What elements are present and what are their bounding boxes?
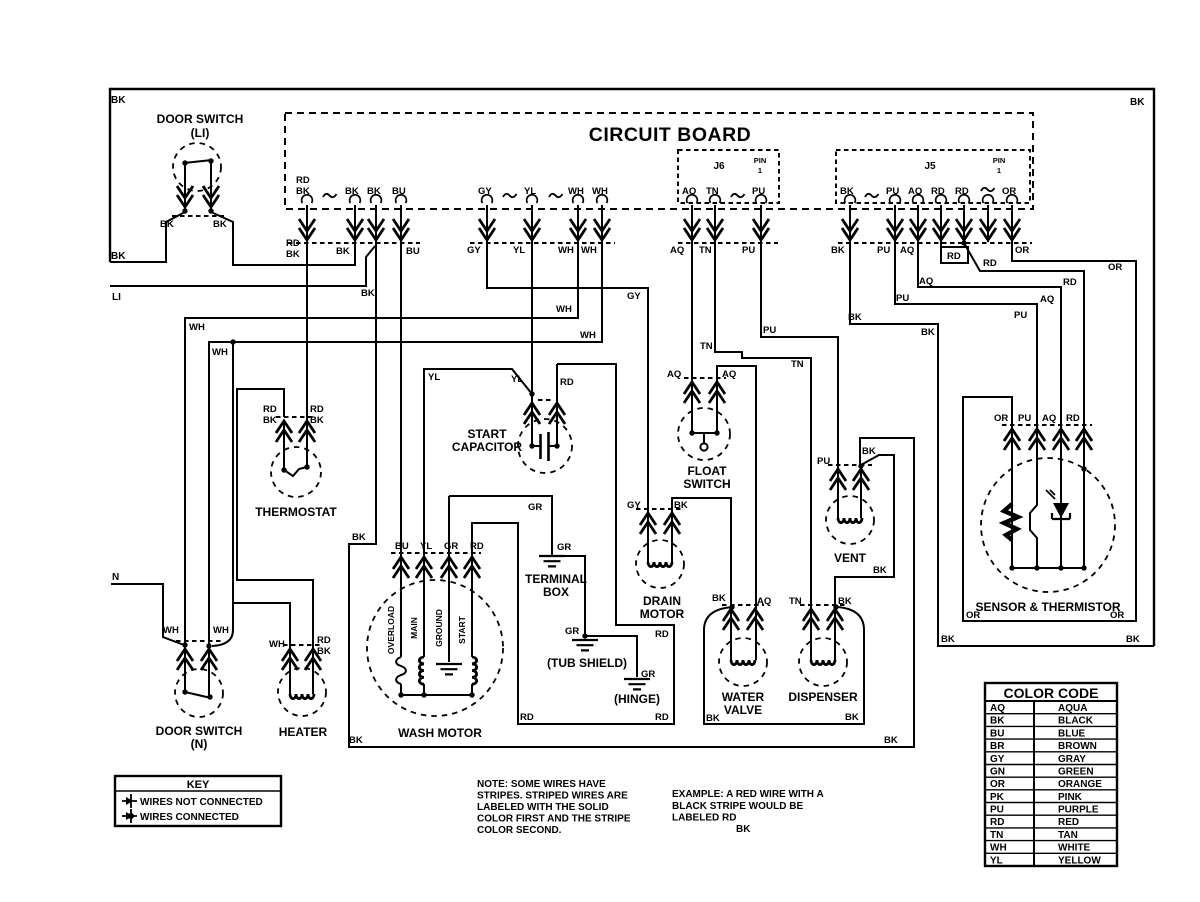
circuit board dashed outline — [285, 113, 1033, 209]
svg-text:AQ: AQ — [682, 186, 696, 197]
GR wire wash motor to terminal box ground — [449, 496, 552, 662]
svg-text:LABELED RD: LABELED RD — [672, 813, 736, 824]
svg-text:PU: PU — [990, 805, 1004, 816]
svg-text:TN: TN — [990, 830, 1003, 841]
svg-text:KEY: KEY — [187, 779, 210, 791]
svg-text:BK: BK — [736, 824, 751, 835]
sensor and thermistor — [975, 413, 1120, 614]
svg-text:BU: BU — [990, 728, 1004, 739]
svg-text:BK: BK — [674, 500, 688, 511]
svg-text:AQ: AQ — [919, 276, 933, 287]
svg-text:(TUB SHIELD): (TUB SHIELD) — [547, 656, 627, 670]
RD stub wire boxed pin — [940, 205, 942, 247]
svg-text:SWITCH: SWITCH — [683, 477, 730, 491]
svg-text:BK: BK — [310, 415, 324, 426]
wash motor — [367, 541, 503, 740]
OR wire J5 around sensor box — [963, 205, 1136, 621]
svg-text:BK: BK — [160, 219, 174, 230]
svg-text:WH: WH — [592, 186, 608, 197]
svg-text:RD: RD — [470, 541, 484, 552]
svg-text:PU: PU — [817, 456, 830, 467]
svg-text:OVERLOAD: OVERLOAD — [386, 606, 396, 654]
svg-text:GY: GY — [990, 754, 1005, 765]
key box — [115, 776, 281, 826]
wires connected symbol — [122, 809, 137, 823]
svg-text:WASH MOTOR: WASH MOTOR — [398, 726, 482, 740]
svg-text:WH: WH — [163, 625, 179, 636]
svg-text:WH: WH — [212, 347, 228, 358]
svg-text:RED: RED — [1058, 817, 1079, 828]
note text — [477, 779, 631, 836]
svg-text:DRAIN: DRAIN — [643, 594, 681, 608]
svg-text:WH: WH — [568, 186, 584, 197]
unused J5 pin stub wire — [987, 205, 989, 242]
svg-text:GR: GR — [444, 541, 458, 552]
J5 unused pin hook with squiggle — [983, 195, 994, 203]
vent BK junction dot — [858, 463, 863, 468]
svg-text:LABELED WITH THE SOLID: LABELED WITH THE SOLID — [477, 802, 609, 813]
svg-text:YL: YL — [420, 541, 432, 552]
BK enclosure wire around wash motor area to vent — [349, 205, 914, 747]
J6 pin AQ hook — [687, 195, 698, 203]
svg-text:BK: BK — [862, 446, 876, 457]
svg-text:WH: WH — [556, 304, 572, 315]
PU wire J5 to sensor — [895, 205, 1037, 568]
svg-text:BK: BK — [921, 327, 935, 338]
svg-text:AQUA: AQUA — [1058, 703, 1087, 714]
svg-text:WIRES NOT CONNECTED: WIRES NOT CONNECTED — [140, 797, 263, 808]
svg-text:BK: BK — [1126, 634, 1140, 645]
svg-text:GY: GY — [478, 186, 492, 197]
svg-text:RD: RD — [990, 817, 1004, 828]
svg-text:BK: BK — [845, 712, 859, 723]
J6 pin PU hook — [756, 195, 767, 203]
svg-text:BK: BK — [296, 186, 310, 197]
svg-text:SENSOR & THERMISTOR: SENSOR & THERMISTOR — [975, 600, 1120, 614]
svg-text:BK: BK — [873, 565, 887, 576]
thermostat — [255, 404, 337, 519]
boxed RD label — [941, 247, 968, 263]
sensor bottom bar — [1012, 567, 1084, 569]
J5 pin RD hook — [936, 195, 947, 203]
svg-text:OR: OR — [994, 413, 1008, 424]
unused pin squiggle — [865, 194, 879, 197]
harness connector dashed line group C — [678, 242, 778, 244]
BK wire J5 to sensor area and border — [850, 205, 1154, 646]
diode symbol — [1053, 503, 1069, 518]
unused pin squiggle — [731, 194, 745, 197]
J5 pin RD hook — [959, 195, 970, 203]
svg-text:THERMOSTAT: THERMOSTAT — [255, 505, 337, 519]
harness connector dashed line group D — [838, 242, 1032, 244]
wire door switch LI right pin to board BK pin — [211, 205, 355, 265]
BK wire vent to dispenser — [835, 455, 894, 660]
WH wire 2 board to door switch N right pin — [209, 205, 602, 696]
dispenser BK pin dot — [833, 604, 838, 609]
AQ wire float switch to water valve — [717, 366, 756, 660]
svg-text:OR: OR — [1002, 186, 1016, 197]
svg-text:FLOAT: FLOAT — [687, 464, 727, 478]
svg-text:BK: BK — [111, 95, 126, 106]
svg-text:COLOR FIRST AND THE STRIPE: COLOR FIRST AND THE STRIPE — [477, 814, 631, 825]
svg-text:TAN: TAN — [1058, 830, 1078, 841]
board pin GY hook — [482, 195, 493, 203]
svg-text:PINK: PINK — [1058, 792, 1083, 803]
drain motor — [627, 500, 688, 621]
svg-text:AQ: AQ — [908, 186, 922, 197]
svg-text:TN: TN — [706, 186, 719, 197]
svg-text:J5: J5 — [924, 161, 936, 172]
svg-text:PU: PU — [877, 245, 890, 256]
svg-text:YL: YL — [513, 245, 525, 256]
AQ wire J5 to sensor — [918, 205, 1061, 568]
svg-text:WH: WH — [581, 245, 597, 256]
tub shield ground — [547, 626, 627, 670]
thermistor symbol — [1004, 504, 1018, 540]
J5 pin PU hook — [890, 195, 901, 203]
svg-text:RD: RD — [520, 712, 534, 723]
board pin WH hook — [597, 195, 608, 203]
svg-text:MOTOR: MOTOR — [640, 607, 685, 621]
svg-text:AQ: AQ — [722, 369, 736, 380]
svg-text:MAIN: MAIN — [409, 617, 419, 639]
svg-text:BK: BK — [111, 251, 126, 262]
dispenser — [788, 596, 858, 704]
unused pin squiggle — [503, 194, 517, 197]
svg-text:AQ: AQ — [990, 703, 1005, 714]
svg-text:GR: GR — [641, 669, 655, 680]
YL wire board to junction and wash motor — [424, 205, 532, 657]
svg-text:PIN: PIN — [754, 156, 767, 165]
svg-text:OR: OR — [1108, 262, 1122, 273]
svg-text:OR: OR — [990, 779, 1006, 790]
wire board RD/BK pin to thermostat — [306, 205, 308, 467]
svg-text:DOOR SWITCH: DOOR SWITCH — [156, 724, 243, 738]
water valve — [719, 596, 771, 717]
board pin YL hook — [527, 195, 538, 203]
svg-text:AQ: AQ — [670, 245, 684, 256]
svg-text:BU: BU — [392, 186, 406, 197]
svg-text:BK: BK — [831, 245, 845, 256]
svg-text:J6: J6 — [713, 161, 725, 172]
svg-text:RD: RD — [560, 377, 574, 388]
float switch — [667, 369, 736, 491]
svg-text:VALVE: VALVE — [724, 703, 762, 717]
svg-text:BK: BK — [345, 186, 359, 197]
board pin BK hook — [371, 195, 382, 203]
svg-text:BROWN: BROWN — [1058, 741, 1097, 752]
svg-text:GREEN: GREEN — [1058, 767, 1094, 778]
hinge ground — [614, 669, 660, 706]
svg-text:WATER: WATER — [722, 690, 765, 704]
svg-text:1: 1 — [758, 166, 762, 175]
svg-text:BU: BU — [406, 246, 420, 257]
svg-text:BK: BK — [1130, 97, 1145, 108]
svg-text:YL: YL — [990, 855, 1003, 866]
svg-text:BK: BK — [213, 219, 227, 230]
svg-text:BR: BR — [990, 741, 1005, 752]
svg-text:BOX: BOX — [543, 585, 569, 599]
RD/BK wire thermostat left pin to heater — [237, 389, 313, 694]
svg-text:TN: TN — [700, 341, 713, 352]
svg-text:RD: RD — [317, 635, 331, 646]
svg-text:GR: GR — [528, 502, 542, 513]
svg-text:YELLOW: YELLOW — [1058, 855, 1101, 866]
svg-text:BK: BK — [712, 593, 726, 604]
capacitor lead dots — [529, 443, 534, 448]
svg-text:BK: BK — [263, 415, 277, 426]
svg-text:BK: BK — [317, 646, 331, 657]
harness connector dashed line group B — [470, 242, 615, 244]
svg-text:N: N — [112, 572, 119, 583]
svg-text:BK: BK — [361, 288, 375, 299]
svg-text:WH: WH — [189, 322, 205, 333]
svg-text:GN: GN — [990, 767, 1005, 778]
GR wire terminal box to tub shield and hinge — [552, 556, 637, 677]
svg-text:GR: GR — [557, 542, 571, 553]
svg-text:DISPENSER: DISPENSER — [788, 690, 858, 704]
svg-text:BLACK STRIPE WOULD BE: BLACK STRIPE WOULD BE — [672, 801, 803, 812]
svg-text:START: START — [457, 615, 467, 644]
svg-text:BK: BK — [706, 713, 720, 724]
BK wire border to door switch LI left pin — [110, 212, 185, 262]
YL junction dot — [529, 391, 534, 396]
water valve BK pin dot — [729, 604, 734, 609]
dot on RD sensor wire — [1081, 466, 1086, 471]
TN wire J6 to dispenser — [715, 205, 811, 660]
svg-text:(HINGE): (HINGE) — [614, 692, 660, 706]
svg-text:GROUND: GROUND — [434, 609, 444, 647]
tub shield junction dot — [582, 633, 587, 638]
svg-text:PU: PU — [896, 293, 909, 304]
harness connector dashed line group A — [288, 242, 420, 244]
svg-text:PU: PU — [763, 325, 776, 336]
svg-text:START: START — [467, 427, 507, 441]
svg-text:YL: YL — [428, 372, 440, 383]
J5 pin BK hook — [845, 195, 856, 203]
svg-text:GR: GR — [565, 626, 579, 637]
svg-text:COLOR CODE: COLOR CODE — [1004, 685, 1099, 701]
svg-text:BU: BU — [395, 541, 409, 552]
svg-text:YL: YL — [524, 186, 536, 197]
N supply wire — [111, 584, 184, 645]
WH branch horizontal to heater — [233, 603, 290, 694]
example text — [672, 789, 824, 835]
svg-text:BK: BK — [286, 249, 300, 260]
svg-text:LI: LI — [112, 292, 121, 303]
svg-text:AQ: AQ — [1042, 413, 1056, 424]
svg-text:PU: PU — [1014, 310, 1027, 321]
svg-text:RD: RD — [310, 404, 324, 415]
color code table — [985, 683, 1117, 866]
svg-text:RD: RD — [955, 186, 969, 197]
svg-text:AQ: AQ — [667, 369, 681, 380]
svg-text:WIRES CONNECTED: WIRES CONNECTED — [140, 812, 239, 823]
svg-text:BLACK: BLACK — [1058, 716, 1094, 727]
GY wire board to drain motor — [487, 205, 648, 562]
YL wire junction into start capacitor — [532, 394, 540, 446]
svg-text:PU: PU — [742, 245, 755, 256]
vent — [817, 456, 874, 565]
svg-text:COLOR SECOND.: COLOR SECOND. — [477, 825, 562, 836]
svg-text:NOTE: SOME WIRES HAVE: NOTE: SOME WIRES HAVE — [477, 779, 606, 790]
svg-text:PU: PU — [1018, 413, 1031, 424]
start capacitor — [452, 400, 572, 473]
svg-text:YL: YL — [511, 374, 523, 385]
svg-text:PURPLE: PURPLE — [1058, 805, 1099, 816]
svg-text:PU: PU — [752, 186, 765, 197]
AQ wire J6 to float switch — [691, 205, 693, 433]
wires not connected symbol — [122, 794, 137, 808]
drain motor BK wire to water valve — [672, 498, 731, 660]
svg-text:RD: RD — [1063, 277, 1077, 288]
svg-text:AQ: AQ — [757, 596, 771, 607]
svg-text:WH: WH — [990, 843, 1007, 854]
svg-text:VENT: VENT — [834, 551, 867, 565]
svg-text:WH: WH — [580, 330, 596, 341]
board pin RD/BK hook — [302, 195, 313, 203]
svg-text:(LI): (LI) — [191, 126, 210, 140]
svg-text:RD: RD — [263, 404, 277, 415]
svg-text:PK: PK — [990, 792, 1005, 803]
svg-text:BK: BK — [941, 634, 955, 645]
svg-text:TN: TN — [789, 596, 802, 607]
svg-text:DOOR SWITCH: DOOR SWITCH — [157, 112, 244, 126]
svg-text:RD: RD — [296, 175, 310, 186]
svg-text:RD: RD — [1066, 413, 1080, 424]
svg-text:EXAMPLE: A RED WIRE WITH A: EXAMPLE: A RED WIRE WITH A — [672, 789, 824, 800]
unused pin squiggle — [323, 194, 337, 197]
water valve BK loop wire to dispenser — [704, 607, 864, 724]
svg-text:PIN: PIN — [993, 156, 1006, 165]
svg-text:RD: RD — [983, 258, 997, 269]
svg-text:BK: BK — [352, 532, 366, 543]
RD wire J5 pin5 to sensor — [964, 205, 1084, 568]
svg-text:STRIPES. STRIPED WIRES ARE: STRIPES. STRIPED WIRES ARE — [477, 791, 628, 802]
RD wire start capacitor to wash motor loop — [472, 364, 674, 724]
svg-text:RD: RD — [947, 251, 961, 262]
svg-text:BK: BK — [349, 735, 363, 746]
svg-text:TERMINAL: TERMINAL — [525, 572, 587, 586]
svg-text:GY: GY — [467, 245, 481, 256]
svg-text:BK: BK — [848, 312, 862, 323]
board pin WH hook — [573, 195, 584, 203]
svg-text:BK: BK — [990, 716, 1005, 727]
svg-text:BK: BK — [840, 186, 854, 197]
svg-text:BK: BK — [367, 186, 381, 197]
connector arrows below circuit board — [299, 219, 315, 240]
svg-text:RD: RD — [931, 186, 945, 197]
outer BK border wire — [110, 89, 1154, 646]
svg-text:RD: RD — [655, 712, 669, 723]
board pin BU hook — [396, 195, 407, 203]
svg-text:HEATER: HEATER — [279, 725, 328, 739]
junction dot WH branch — [230, 339, 235, 344]
svg-text:CIRCUIT BOARD: CIRCUIT BOARD — [589, 124, 752, 146]
J5 pin AQ hook — [913, 195, 924, 203]
svg-text:PU: PU — [886, 186, 899, 197]
svg-text:WHITE: WHITE — [1058, 843, 1091, 854]
start capacitor plates — [541, 432, 549, 461]
svg-text:ORANGE: ORANGE — [1058, 779, 1102, 790]
svg-text:GRAY: GRAY — [1058, 754, 1086, 765]
svg-text:1: 1 — [997, 166, 1001, 175]
connector J5 dashed box — [836, 150, 1030, 203]
svg-text:CAPACITOR: CAPACITOR — [452, 440, 523, 454]
J6 pin TN hook — [710, 195, 721, 203]
door switch N — [156, 625, 243, 751]
svg-text:RD: RD — [286, 238, 300, 249]
svg-text:TN: TN — [791, 359, 804, 370]
connector J6 dashed box — [678, 150, 779, 203]
svg-text:(N): (N) — [191, 737, 208, 751]
svg-text:WH: WH — [558, 245, 574, 256]
door switch LI — [157, 112, 244, 230]
svg-text:RD: RD — [655, 629, 669, 640]
terminal box ground — [525, 542, 587, 599]
svg-text:BK: BK — [884, 735, 898, 746]
svg-text:WH: WH — [213, 625, 229, 636]
PU wire J6 to vent — [761, 205, 838, 518]
WH wire 1 board to door switch N left pin — [185, 205, 578, 692]
svg-text:WH: WH — [269, 639, 285, 650]
RD branch junction dot — [961, 240, 966, 245]
heater — [269, 635, 331, 739]
J5 pin OR hook — [1007, 195, 1018, 203]
svg-text:AQ: AQ — [900, 245, 914, 256]
WH branch wire to heater and door N pin — [212, 342, 233, 646]
BU wire board to wash motor — [400, 205, 402, 657]
svg-text:BK: BK — [336, 246, 350, 257]
board pin BK hook — [350, 195, 361, 203]
svg-text:AQ: AQ — [1040, 294, 1054, 305]
svg-text:BLUE: BLUE — [1058, 728, 1086, 739]
LI supply wire — [110, 246, 375, 286]
svg-text:OR: OR — [1015, 245, 1029, 256]
svg-text:GY: GY — [627, 500, 641, 511]
unused pin squiggle — [549, 194, 563, 197]
svg-text:GY: GY — [627, 291, 641, 302]
svg-text:TN: TN — [699, 245, 712, 256]
